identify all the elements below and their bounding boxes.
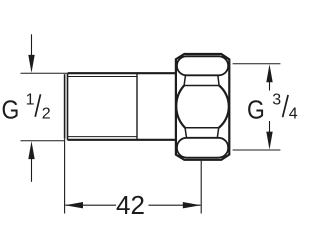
42 right extension line <box>200 161 202 214</box>
label G 1/2 <box>2 92 51 125</box>
svg-text:4: 4 <box>289 106 298 123</box>
G3/4 top dimension arrow line <box>269 82 271 91</box>
nut bottom capsule facet <box>177 138 228 158</box>
shank cylinder <box>137 73 176 140</box>
G1/2 top dimension arrow line <box>31 34 33 56</box>
42 dimension line segments <box>65 204 200 206</box>
thread / shank boundary line <box>136 73 138 140</box>
G1/2 bottom extension line <box>21 140 65 142</box>
label G 3/4 <box>247 92 298 125</box>
G1/2 arrowhead up <box>28 141 34 159</box>
thread minor diameter thin lines <box>68 77 137 137</box>
nut lower band <box>185 128 219 138</box>
thread end face line <box>64 74 66 139</box>
42 left extension line <box>64 139 66 214</box>
svg-text:42: 42 <box>116 190 145 220</box>
nut top capsule facet <box>177 56 228 75</box>
nut barrel arc left <box>176 86 185 128</box>
nut upper band <box>184 75 219 85</box>
svg-text:G: G <box>247 96 265 125</box>
svg-text:3: 3 <box>272 92 281 109</box>
svg-text:2: 2 <box>42 106 51 123</box>
42 arrowhead left <box>65 202 83 208</box>
union nut outer octagon <box>176 54 229 160</box>
thread chamfer line <box>67 73 69 140</box>
G3/4 top extension line <box>233 63 281 65</box>
G1/2 top extension line <box>21 72 68 74</box>
42 arrowhead right <box>183 202 201 208</box>
G3/4 arrowhead down <box>266 132 272 150</box>
male thread body outline (major diameter) <box>68 73 138 140</box>
svg-text:1: 1 <box>26 92 35 109</box>
nut barrel arc right <box>219 86 229 128</box>
G1/2 bottom dimension arrow line <box>31 159 33 182</box>
G3/4 arrowhead up <box>266 64 272 82</box>
G3/4 bottom extension line <box>233 149 281 151</box>
svg-text:G: G <box>2 96 20 125</box>
G3/4 bottom dimension arrow line <box>269 121 271 132</box>
G1/2 arrowhead down <box>28 55 34 73</box>
